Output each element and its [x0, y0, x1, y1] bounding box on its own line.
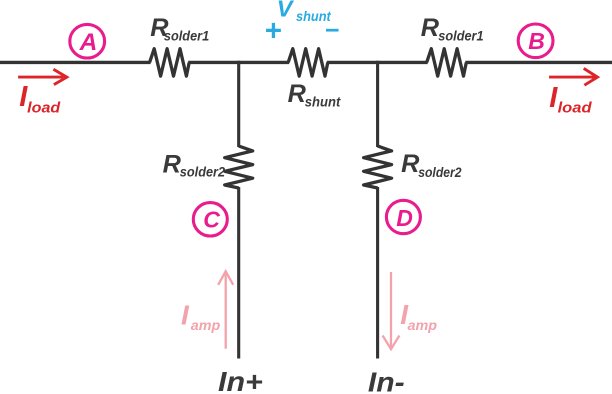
svg-text:R: R [421, 14, 440, 42]
wire right branch upper [376, 61, 379, 147]
svg-text:solder2: solder2 [418, 165, 462, 180]
svg-text:load: load [27, 100, 61, 116]
svg-text:−: − [324, 17, 339, 45]
resistor R_solder1 left zigzag [150, 49, 190, 76]
current arrow I_load left [18, 69, 67, 84]
resistor R_solder2 right zigzag [364, 146, 392, 188]
svg-text:R: R [163, 150, 182, 178]
svg-text:D: D [396, 205, 413, 231]
current arrow I_load right [549, 68, 597, 85]
wire left branch upper [237, 61, 240, 147]
resistor R_shunt zigzag [288, 49, 328, 76]
svg-text:In-: In- [368, 367, 405, 394]
node B [518, 24, 553, 58]
resistor R_solder2 left zigzag [225, 146, 253, 188]
svg-text:amp: amp [408, 317, 438, 333]
wire top rail right segment [465, 61, 612, 64]
resistor R_solder1 right zigzag [427, 49, 467, 76]
svg-text:solder1: solder1 [164, 28, 209, 43]
current arrow I_amp left (upward) [218, 271, 233, 348]
current arrow I_amp right (downward) [383, 272, 400, 349]
svg-text:+: + [264, 15, 281, 48]
svg-text:B: B [528, 28, 545, 54]
svg-text:shunt: shunt [305, 95, 342, 110]
svg-text:I: I [181, 299, 190, 330]
svg-text:amp: amp [191, 317, 221, 333]
wire top rail between shunt and right resistor [327, 61, 428, 64]
svg-text:load: load [558, 101, 593, 117]
svg-text:A: A [79, 29, 98, 56]
svg-text:C: C [203, 206, 220, 232]
wire top rail between left resistor and shunt [188, 61, 289, 64]
node A [70, 24, 105, 58]
wire left branch lower [237, 187, 240, 359]
svg-text:In+: In+ [218, 366, 263, 394]
svg-text:solder1: solder1 [438, 28, 483, 43]
wire right branch lower [376, 187, 379, 359]
svg-text:solder2: solder2 [180, 165, 226, 180]
wire top rail left segment [0, 61, 151, 64]
node D [386, 200, 420, 233]
node C [193, 203, 227, 236]
svg-text:R: R [288, 80, 307, 108]
